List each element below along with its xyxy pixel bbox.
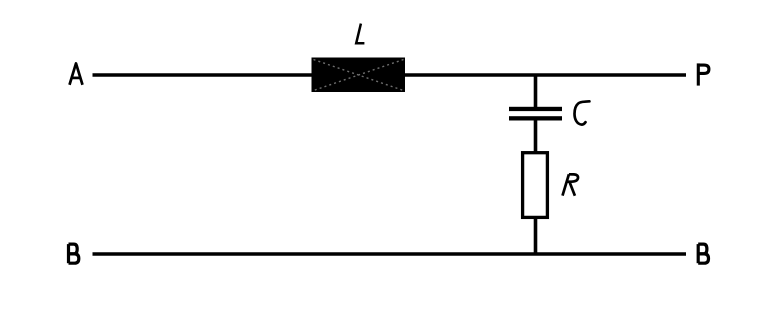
wire top A to P <box>93 73 687 77</box>
wire vertical branch top (node P wire to capacitor) <box>534 75 538 108</box>
capacitor C plates <box>509 107 562 121</box>
wire resistor to bottom wire <box>534 218 538 254</box>
label B right <box>698 244 708 263</box>
label C <box>575 101 590 124</box>
label A <box>70 63 83 84</box>
resistor R body <box>523 153 548 218</box>
inductor L (filled box with dashed X) <box>312 58 406 93</box>
label R <box>563 174 579 196</box>
label P <box>698 63 709 85</box>
label B left <box>69 244 79 263</box>
wire capacitor to resistor <box>534 120 538 152</box>
label L <box>356 24 364 44</box>
wire bottom B to B <box>93 252 687 256</box>
